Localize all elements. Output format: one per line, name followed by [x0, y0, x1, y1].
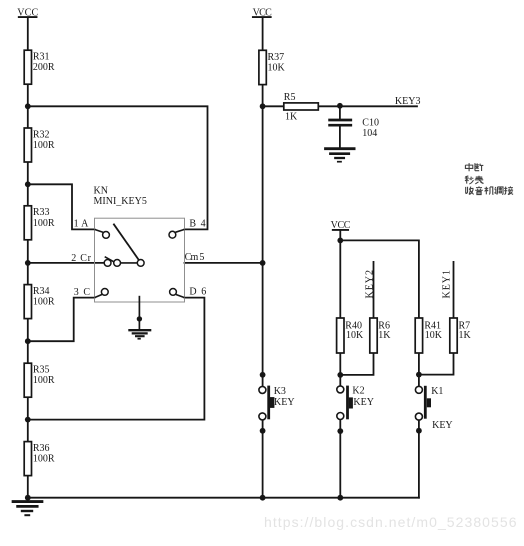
- button K3: [259, 386, 295, 420]
- resistor R40: [337, 318, 364, 353]
- ground bottom left: [13, 502, 42, 516]
- wire R36 to ground rail: [27, 476, 29, 498]
- svg-text:100R: 100R: [33, 297, 55, 308]
- wire C10 to ground: [339, 127, 341, 148]
- junction VCC right: [337, 238, 343, 244]
- svg-text:R36: R36: [33, 443, 50, 454]
- svg-text:1K: 1K: [285, 112, 298, 123]
- wire R7 bottom bend: [419, 353, 454, 375]
- svg-text:K2: K2: [352, 386, 364, 397]
- junction node5: [25, 417, 31, 423]
- junction K1 bottom: [416, 428, 422, 434]
- wire node3 to pin 2Cr: [28, 262, 104, 264]
- junction rail left: [25, 495, 31, 501]
- svg-text:Cm 5: Cm 5: [185, 252, 205, 263]
- svg-text:K3: K3: [274, 386, 286, 397]
- ground C10: [326, 149, 355, 162]
- switch arm: [113, 224, 138, 260]
- power VCC left: [19, 17, 37, 50]
- wire R35 to R36: [27, 397, 29, 441]
- junction rail K3: [260, 495, 266, 501]
- resistor R37: [259, 50, 286, 84]
- resistor R31: [24, 50, 55, 84]
- wire KEY2 stub: [373, 262, 375, 318]
- junction K2 bottom: [337, 428, 343, 434]
- wire R5 to KEY3: [318, 105, 417, 107]
- switch KN MINI_KEY5: [71, 186, 206, 339]
- svg-text:3 C: 3 C: [74, 287, 91, 298]
- svg-text:2 Cr: 2 Cr: [71, 253, 91, 264]
- junction node3: [25, 260, 31, 266]
- annotation chinese text: [465, 163, 513, 194]
- svg-text:10K: 10K: [346, 330, 364, 341]
- svg-text:R32: R32: [33, 129, 50, 140]
- svg-text:10K: 10K: [268, 63, 286, 74]
- pin 2 Cr: [71, 253, 120, 266]
- resistor R7: [450, 318, 472, 353]
- wire node1 to pin B4: [28, 106, 208, 229]
- svg-text:R31: R31: [33, 52, 50, 63]
- switch contact lever: [105, 257, 114, 262]
- resistor R41: [415, 318, 443, 353]
- pin B 4: [169, 218, 206, 238]
- ground switch: [128, 330, 151, 339]
- svg-text:104: 104: [362, 128, 377, 139]
- junction K3 bottom: [260, 428, 266, 434]
- wire node R5 left: [263, 105, 284, 107]
- label KN: [94, 186, 147, 208]
- resistor R33: [24, 206, 55, 240]
- svg-text:1 A: 1 A: [74, 218, 90, 229]
- svg-text:200R: 200R: [33, 62, 55, 73]
- svg-text:B 4: B 4: [189, 218, 205, 229]
- wire R6 bottom bend: [340, 353, 373, 375]
- junction Cm node: [260, 260, 266, 266]
- wire C10 stem top: [339, 106, 341, 118]
- svg-text:R5: R5: [284, 92, 296, 103]
- svg-text:KEY: KEY: [432, 420, 453, 431]
- wire KEY1 stub: [453, 262, 455, 318]
- switch common link: [121, 262, 138, 264]
- svg-text:R33: R33: [33, 207, 50, 218]
- wire K2 to rail: [339, 420, 341, 498]
- svg-text:100R: 100R: [33, 375, 55, 386]
- wire R34 to R35: [27, 319, 29, 364]
- wire K3 to rail: [262, 421, 264, 498]
- pin 3 C: [74, 287, 109, 298]
- wire R31 to R32: [27, 84, 29, 128]
- junction node1: [25, 103, 31, 109]
- junction switch ground: [137, 316, 142, 321]
- svg-text:KEY1: KEY1: [442, 270, 453, 299]
- svg-text:C10: C10: [362, 118, 379, 129]
- svg-text:K1: K1: [431, 386, 443, 397]
- svg-text:KEY3: KEY3: [395, 96, 421, 107]
- svg-text:R34: R34: [33, 286, 50, 297]
- svg-text:KEY: KEY: [353, 397, 374, 408]
- wire R33 to R34: [27, 240, 29, 285]
- button K1: [415, 386, 452, 431]
- wire R37 down K3 column: [262, 85, 264, 386]
- svg-text:D 6: D 6: [189, 287, 206, 298]
- resistor R5: [284, 92, 319, 123]
- resistor R35: [24, 363, 55, 397]
- svg-text:KEY: KEY: [274, 397, 295, 408]
- wire node2 to pin 1A: [28, 184, 95, 229]
- svg-text:10K: 10K: [425, 330, 443, 341]
- wire bottom rail: [28, 497, 419, 499]
- junction K2 top: [337, 372, 343, 378]
- svg-text:KEY2: KEY2: [364, 270, 375, 299]
- resistor R36: [24, 442, 55, 476]
- svg-text:100R: 100R: [33, 454, 55, 465]
- svg-text:VCC: VCC: [253, 8, 273, 19]
- wire R32 to R33: [27, 162, 29, 206]
- svg-text:VCC: VCC: [331, 220, 351, 231]
- pin 1 A: [74, 218, 110, 238]
- junction K3 top: [260, 372, 266, 378]
- switch body box: [95, 218, 185, 302]
- junction rail K2: [337, 495, 343, 501]
- label C10 value: [362, 118, 379, 140]
- svg-text:100R: 100R: [33, 218, 55, 229]
- wire R40 to K2: [339, 353, 341, 386]
- resistor R6: [370, 318, 392, 353]
- svg-text:MINI_KEY5: MINI_KEY5: [94, 196, 147, 207]
- svg-text:100R: 100R: [33, 140, 55, 151]
- junction node4: [25, 338, 31, 344]
- svg-text:VCC: VCC: [17, 8, 38, 19]
- resistor R32: [24, 128, 55, 162]
- switch pivot: [137, 260, 144, 267]
- wire VCC right to R41 column: [340, 240, 419, 318]
- svg-text:1K: 1K: [378, 330, 391, 341]
- svg-text:1K: 1K: [459, 330, 472, 341]
- power VCC middle: [253, 17, 271, 50]
- wire R41 to K1: [418, 353, 420, 386]
- wire node5 to pin D6: [28, 298, 205, 420]
- svg-text:R35: R35: [33, 365, 50, 376]
- junction node2: [25, 181, 31, 187]
- wire pin Cm5 to K3 column: [185, 262, 263, 264]
- power VCC right: [333, 230, 348, 318]
- junction K1 top: [416, 372, 422, 378]
- resistor R34: [24, 285, 55, 319]
- svg-text:R37: R37: [268, 52, 285, 63]
- capacitor C10: [330, 120, 351, 125]
- wire node4 to pin 3C: [28, 298, 95, 342]
- junction R37 R5: [260, 103, 266, 109]
- svg-text:KN: KN: [94, 186, 108, 197]
- wire K1 to rail: [418, 421, 420, 498]
- wire switch ground stem: [138, 296, 140, 329]
- button K2: [337, 386, 374, 420]
- junction C10 top: [337, 103, 343, 109]
- pin D 6: [170, 287, 207, 298]
- svg-text:https://blog.csdn.net/m0_52380: https://blog.csdn.net/m0_52380556: [264, 514, 517, 530]
